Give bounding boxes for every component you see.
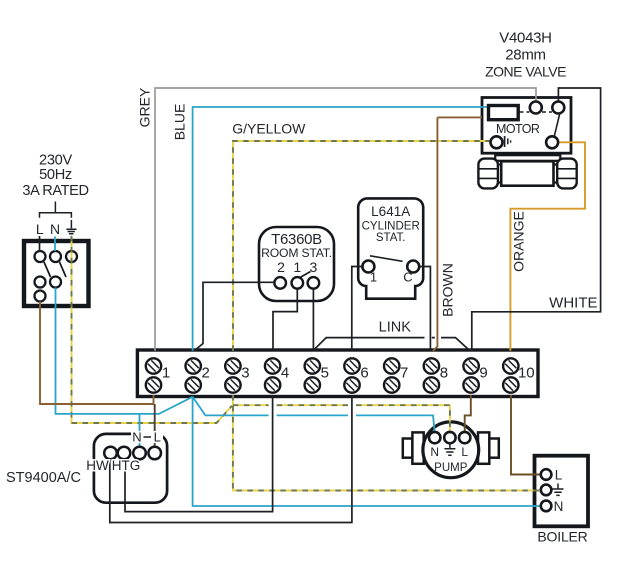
svg-text:BOILER: BOILER <box>537 528 587 544</box>
svg-text:HW: HW <box>86 458 109 473</box>
svg-text:1: 1 <box>162 365 170 382</box>
svg-text:MOTOR: MOTOR <box>496 122 540 136</box>
svg-text:N: N <box>430 445 439 459</box>
svg-text:WHITE: WHITE <box>549 294 597 311</box>
svg-text:50Hz: 50Hz <box>39 167 72 183</box>
svg-text:3: 3 <box>241 365 249 382</box>
svg-text:HTG: HTG <box>112 458 141 473</box>
svg-text:V4043H: V4043H <box>499 30 551 47</box>
svg-text:5: 5 <box>321 365 329 382</box>
svg-text:L: L <box>36 221 44 237</box>
svg-text:1: 1 <box>293 259 301 275</box>
svg-text:9: 9 <box>479 365 487 382</box>
svg-text:PUMP: PUMP <box>434 462 468 474</box>
svg-text:ST9400A/C: ST9400A/C <box>6 470 81 486</box>
svg-text:LINK: LINK <box>379 320 412 336</box>
svg-text:2: 2 <box>277 259 285 275</box>
svg-text:ZONE VALVE: ZONE VALVE <box>485 63 566 79</box>
svg-text:CYLINDER: CYLINDER <box>362 221 420 233</box>
svg-text:BROWN: BROWN <box>440 263 456 317</box>
svg-text:7: 7 <box>400 365 408 382</box>
svg-text:G/YELLOW: G/YELLOW <box>232 121 306 137</box>
svg-text:ROOM STAT.: ROOM STAT. <box>261 246 332 260</box>
svg-text:BLUE: BLUE <box>172 104 188 141</box>
svg-text:1: 1 <box>370 270 377 285</box>
svg-text:8: 8 <box>440 365 448 382</box>
svg-text:L: L <box>461 445 468 459</box>
svg-text:L: L <box>154 430 161 445</box>
svg-text:C: C <box>403 270 412 285</box>
svg-text:10: 10 <box>518 365 535 382</box>
svg-text:ORANGE: ORANGE <box>511 211 527 272</box>
svg-text:STAT.: STAT. <box>376 232 406 244</box>
svg-text:N: N <box>554 499 564 514</box>
svg-text:28mm: 28mm <box>505 47 545 64</box>
svg-text:GREY: GREY <box>137 87 153 127</box>
svg-text:N: N <box>132 430 141 445</box>
svg-text:L641A: L641A <box>371 204 410 219</box>
svg-text:3A RATED: 3A RATED <box>22 183 88 199</box>
svg-text:N: N <box>50 221 60 237</box>
svg-text:3: 3 <box>310 259 318 275</box>
svg-text:4: 4 <box>281 365 289 382</box>
svg-text:2: 2 <box>202 365 210 382</box>
svg-text:6: 6 <box>360 365 368 382</box>
svg-text:L: L <box>555 467 563 482</box>
